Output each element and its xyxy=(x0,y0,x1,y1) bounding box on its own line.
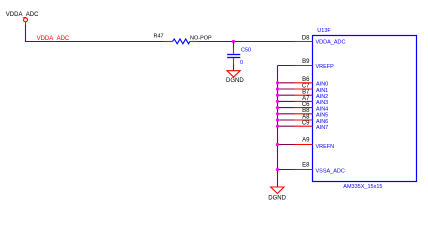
pin A7 AIN3 xyxy=(295,96,329,106)
wire horizontal to R47 xyxy=(25,41,166,43)
pin C7 AIN1 xyxy=(295,83,329,93)
svg-text:VREFN: VREFN xyxy=(316,144,335,150)
svg-text:0: 0 xyxy=(240,60,243,66)
svg-text:C6: C6 xyxy=(302,102,310,108)
wire AIN6 xyxy=(278,119,295,121)
pin B8 AIN5 xyxy=(295,108,329,118)
ground DGND (bus) xyxy=(268,187,286,202)
junction AIN2 xyxy=(276,94,279,97)
junction AIN6 xyxy=(276,118,279,121)
svg-text:R47: R47 xyxy=(154,34,164,40)
svg-text:VDDA_ADC: VDDA_ADC xyxy=(316,40,346,46)
capacitor C50 value 0 xyxy=(240,60,243,66)
svg-text:AIN3: AIN3 xyxy=(316,100,328,106)
svg-text:VREFP: VREFP xyxy=(316,64,335,70)
junction AIN0 xyxy=(276,81,279,84)
svg-text:DGND: DGND xyxy=(226,78,244,84)
resistor R47 refdes xyxy=(154,34,164,40)
svg-text:AIN6: AIN6 xyxy=(316,119,328,125)
svg-text:B7: B7 xyxy=(302,90,310,96)
resistor R47 xyxy=(165,39,198,44)
wire junction to C50 xyxy=(233,42,235,54)
wire vertical from port xyxy=(25,25,27,42)
pin C9 AIN7 xyxy=(295,121,329,131)
capacitor C50 xyxy=(227,55,240,58)
port VDDA_ADC symbol xyxy=(24,18,28,25)
svg-text:E8: E8 xyxy=(302,162,310,168)
junction AIN7 xyxy=(276,125,279,128)
wire VSSA_ADC xyxy=(278,169,295,171)
pin C6 AIN4 xyxy=(295,102,329,112)
pin A9 VREFN xyxy=(295,138,335,150)
pin D8 VDDA_ADC xyxy=(295,35,346,45)
svg-text:DGND: DGND xyxy=(268,196,286,202)
svg-text:B8: B8 xyxy=(302,108,310,114)
svg-text:A8: A8 xyxy=(302,114,310,120)
pin B7 AIN2 xyxy=(295,90,329,100)
svg-text:AIN0: AIN0 xyxy=(316,82,328,88)
svg-text:A7: A7 xyxy=(302,96,310,102)
pin E8 VSSA_ADC xyxy=(295,162,345,174)
junction AIN4 xyxy=(276,106,279,109)
wire AIN4 xyxy=(278,107,295,109)
junction VSSA_ADC xyxy=(276,168,279,171)
svg-text:C9: C9 xyxy=(302,121,310,127)
svg-text:VDDA_ADC: VDDA_ADC xyxy=(37,36,70,42)
port VDDA_ADC label xyxy=(6,12,39,18)
wire AIN2 xyxy=(278,94,295,96)
junction AIN5 xyxy=(276,112,279,115)
svg-text:B6: B6 xyxy=(302,77,310,83)
svg-text:AIN1: AIN1 xyxy=(316,88,328,94)
svg-text:VDDA_ADC: VDDA_ADC xyxy=(6,12,39,18)
svg-text:C50: C50 xyxy=(241,48,251,54)
svg-text:AIN4: AIN4 xyxy=(316,106,328,112)
capacitor C50 refdes xyxy=(241,48,251,54)
pin B6 AIN0 xyxy=(295,77,329,87)
wire AIN1 xyxy=(278,88,295,90)
junction AIN1 xyxy=(276,87,279,90)
IC U1 refdes U13F xyxy=(317,28,331,34)
svg-text:D8: D8 xyxy=(302,35,310,41)
junction VREFN xyxy=(276,143,279,146)
svg-text:AM335X_15x15: AM335X_15x15 xyxy=(343,184,382,190)
svg-text:VSSA_ADC: VSSA_ADC xyxy=(316,168,345,174)
pin A8 AIN6 xyxy=(295,114,329,124)
IC U13F body xyxy=(313,36,417,182)
svg-text:NO-POP: NO-POP xyxy=(190,35,212,41)
svg-text:B9: B9 xyxy=(302,59,310,65)
wire R47 to IC pin D8 xyxy=(197,41,294,43)
wire AIN3 xyxy=(278,100,295,102)
wire VREFP to bus corner xyxy=(278,65,295,67)
net label VDDA_ADC xyxy=(37,36,70,42)
wire AIN5 xyxy=(278,113,295,115)
wire AIN7 xyxy=(278,125,295,127)
svg-text:AIN2: AIN2 xyxy=(316,94,328,100)
resistor R47 value NO-POP xyxy=(190,35,212,41)
wire AIN0 xyxy=(278,82,295,84)
svg-text:C7: C7 xyxy=(302,83,310,89)
svg-text:U13F: U13F xyxy=(317,28,331,34)
svg-text:AIN7: AIN7 xyxy=(316,125,328,131)
ground DGND (C50) xyxy=(226,71,244,85)
ground bus wire vertical xyxy=(277,66,279,187)
junction AIN3 xyxy=(276,100,279,103)
svg-text:AIN5: AIN5 xyxy=(316,113,328,119)
wire VREFN xyxy=(278,144,295,146)
pin B9 VREFP xyxy=(295,59,335,70)
wire C50 to DGND xyxy=(233,58,235,71)
junction at C50 xyxy=(232,40,235,43)
IC part number AM335X_15x15 xyxy=(343,184,382,190)
svg-text:A9: A9 xyxy=(302,138,310,144)
